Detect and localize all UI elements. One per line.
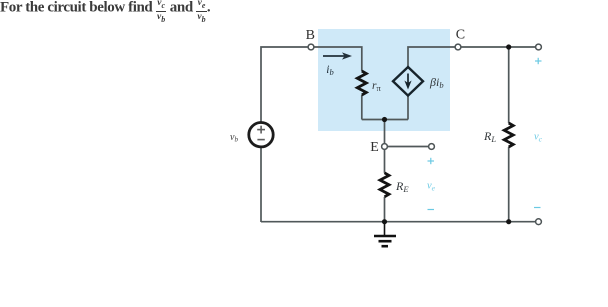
dependent source beta*ib (diamond U1) (393, 67, 423, 96)
wire C to top-right terminal (461, 46, 536, 48)
svg-text:vc: vc (534, 132, 543, 144)
resistor RL (504, 123, 513, 147)
junction dot RL top (506, 44, 511, 49)
current arrow ib (323, 52, 352, 59)
junction dot RE bottom (382, 219, 387, 224)
wire E to RE (384, 149, 386, 173)
svg-text:vb: vb (230, 132, 238, 144)
cyan plus (vc) (535, 58, 542, 64)
wire bottom rail (261, 221, 536, 223)
svg-text:C: C (456, 28, 465, 43)
junction dot RL bottom (506, 219, 511, 224)
wire r_pi bottom to inner rail (361, 95, 363, 120)
cyan plus (ve) (428, 158, 435, 164)
node C (455, 44, 461, 50)
wire B to r_pi branch (314, 47, 362, 71)
ground (374, 222, 396, 246)
node E (382, 144, 388, 150)
wire RL branch (508, 47, 510, 123)
cyan minus (ve) (428, 209, 435, 211)
svg-text:RE: RE (395, 179, 409, 194)
node B (308, 44, 314, 50)
cyan minus (vc) (534, 207, 541, 209)
svg-text:ve: ve (427, 181, 436, 193)
resistor r_pi (357, 71, 366, 95)
wire top-left from source to B (261, 47, 308, 122)
top-right terminal (536, 44, 542, 50)
shaded transistor-model box (318, 29, 450, 131)
wire diamond bottom (407, 96, 409, 120)
wire left bottom from source to bottom rail (260, 148, 262, 222)
bottom-right terminal (536, 219, 542, 225)
svg-text:B: B (306, 28, 315, 43)
wire RE to bottom rail (384, 197, 386, 222)
wire diamond top to C (408, 47, 455, 67)
svg-text:RL: RL (483, 129, 496, 144)
svg-text:E: E (370, 140, 379, 155)
wire node to E (384, 120, 386, 145)
wire inner bottom rail (362, 119, 408, 121)
resistor RE (380, 173, 389, 197)
junction dot inner (382, 117, 387, 122)
wire E to terminal (388, 146, 429, 148)
terminal at E output (429, 144, 435, 150)
voltage source vb (249, 123, 273, 147)
